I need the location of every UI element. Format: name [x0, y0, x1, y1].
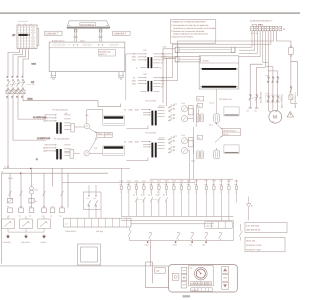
svg-text:A2: A2	[29, 214, 31, 217]
svg-text:K1: K1	[87, 197, 89, 200]
panel mid icon	[223, 277, 227, 279]
selector TR3 dashed link	[170, 104, 172, 121]
svg-text:TIR 3: TIR 3	[191, 159, 195, 162]
bus line L3	[2, 172, 109, 174]
wire heater left drop 2	[166, 58, 168, 106]
svg-text:m4: m4	[198, 104, 200, 107]
selector contacts TR3 upper circle b	[169, 110, 170, 111]
panel left strip icon 2	[182, 276, 185, 279]
svg-text:230V: 230V	[129, 140, 134, 143]
pressure switch blade	[290, 87, 293, 92]
drop contact blade x10	[9, 191, 12, 196]
selector contacts TR4 lower blade b	[169, 150, 172, 152]
transformer TR1 secondary stubs	[153, 54, 160, 63]
panel up button	[222, 267, 229, 274]
wire X1 pin6 down to motor L2	[266, 31, 273, 77]
arrow from T1 to table	[89, 128, 97, 133]
heater bar RS1 inner line	[179, 49, 231, 51]
selector contacts TR4 upper blade b	[169, 141, 172, 143]
cam switch S1 actuator dark bar	[18, 34, 27, 36]
disconnect switch Q2 pole A contact	[250, 94, 251, 95]
panel display segments	[194, 288, 208, 292]
machine rod left bearing	[74, 29, 77, 32]
svg-text:A2: A2	[60, 214, 62, 217]
svg-text:N1: N1	[247, 110, 249, 113]
transformer TR1 primary arrowheads	[145, 53, 147, 60]
transformer TR1 primary stubs	[138, 54, 147, 60]
mini table tag 1	[197, 103, 202, 107]
machine leg right	[119, 72, 123, 76]
timer contact T2 inner mark	[85, 152, 88, 155]
wire TR1 secondary riser 1	[161, 44, 173, 54]
wire bundle bottom link	[145, 286, 168, 288]
transformer TR4 core bar 2	[155, 143, 157, 158]
selector contacts TR3 upper circle a	[169, 107, 170, 108]
cam switch S1 column dividers	[20, 25, 33, 49]
wire breaker to feeder 3	[13, 95, 46, 141]
K1 aux switch vertical	[88, 185, 90, 218]
svg-text:A1: A1	[7, 205, 9, 208]
wire shunt to T1	[78, 126, 84, 128]
wire RV3 to riser	[188, 141, 194, 154]
gray mark under panel	[183, 295, 191, 297]
coil row K4	[42, 208, 47, 213]
selector contacts TR3 upper blade b	[169, 109, 172, 111]
drop contact blade x62	[61, 191, 64, 196]
svg-text:T-VACIO/SELL: T-VACIO/SELL	[65, 230, 77, 233]
breaker Q1 designator line	[27, 84, 35, 86]
svg-text:6TL: 6TL	[190, 243, 193, 246]
svg-text:400V: 400V	[135, 140, 140, 143]
control panel outline	[169, 265, 238, 292]
wire S1 to breaker N	[23, 49, 29, 78]
svg-text:1 3 5: 1 3 5	[265, 74, 269, 77]
svg-text:C2: C2	[259, 97, 261, 100]
transformer TR2 bottom taps	[140, 90, 159, 92]
cut wire rect R-bot bottom bar	[225, 152, 239, 154]
welding bar B1 black bar	[104, 116, 123, 118]
shunt resistor RS2 wires	[64, 151, 79, 155]
svg-text:KA1: KA1	[35, 189, 38, 192]
svg-text:CAMARA T: CAMARA T	[114, 33, 127, 36]
svg-text:L1 48: L1 48	[4, 166, 10, 169]
wire drop k3	[31, 168, 33, 186]
wire TR2 secondary riser 1	[161, 77, 173, 79]
machine body outline	[49, 42, 125, 71]
junction tag box before panel	[155, 268, 166, 274]
terminal strip X1 body	[251, 26, 282, 30]
svg-text:A1: A1	[52, 205, 54, 208]
thermal relay F1 contact U	[268, 96, 269, 97]
rail blade contact x178	[177, 233, 181, 241]
selector contacts TR4 upper terminal dots	[173, 137, 174, 138]
cylinder pair C-top hatch	[198, 115, 202, 121]
svg-text:2 4 6: 2 4 6	[265, 92, 269, 95]
wire bus L2 to connector row	[120, 168, 122, 182]
K1 aux contact dots	[88, 195, 89, 196]
wire bundle left line 2	[152, 262, 154, 283]
panel button B1	[172, 274, 179, 281]
rail blade terminal x206	[205, 232, 208, 234]
cylinder D-top bottom dot	[216, 123, 217, 124]
machine lid rim line	[68, 25, 110, 27]
transformer TR2 secondary stubs	[153, 78, 160, 87]
warning triangle mark	[289, 113, 291, 115]
label box CAMARA T right	[113, 31, 131, 35]
relay valve RV1 circle	[182, 106, 188, 112]
inspection window outer square	[78, 244, 101, 265]
svg-text:EV1: EV1	[182, 102, 185, 105]
wire TR2 riser vertical 1	[171, 54, 173, 78]
selector contacts TR3 lower blade a	[169, 115, 172, 117]
welding bar B2 outline	[103, 146, 124, 155]
relay box RB2	[188, 138, 193, 147]
svg-text:A2: A2	[50, 214, 52, 217]
wire T1 up to welding bar	[87, 110, 103, 124]
svg-text:B=400 R 11 kW: B=400 R 11 kW	[246, 244, 262, 247]
welding bar B1 bottom line	[104, 123, 123, 125]
K contact pair 2 link	[151, 200, 159, 216]
selector contacts TR3 lower terminal dots	[173, 114, 174, 115]
wire bundle top cap	[145, 261, 152, 263]
wire S1 to breaker L3	[18, 49, 26, 78]
plate heater box bottom black bar	[202, 86, 236, 88]
sensor row label 1 dot	[147, 241, 148, 242]
svg-text:segun el dibujo (en la caja de: segun el dibujo (en la caja de bornes).	[173, 33, 209, 36]
transformer TRS2 primary arrowheads	[55, 144, 57, 151]
svg-text:CIA. 655 655: CIA. 655 655	[246, 224, 260, 227]
relay valve RV3 circle	[182, 138, 188, 144]
transformer TR3 core bar 1	[151, 111, 153, 126]
svg-text:230V: 230V	[132, 79, 137, 82]
relay block drop wire	[100, 210, 102, 218]
svg-text:BOMBA VAC: BOMBA VAC	[99, 50, 111, 53]
wire TR4 bottom tap down	[126, 157, 148, 160]
transformer TRS2 secondary stubs	[64, 145, 71, 153]
rail blade contact x192	[191, 233, 195, 241]
reference box 2 frame	[245, 237, 285, 251]
wire top border line	[0, 12, 300, 14]
thermostat strip dividers	[71, 218, 127, 227]
machine band tick marks	[55, 43, 116, 46]
selector contacts TR4 lower circle b	[169, 152, 170, 153]
selector contacts TR3 lower circle b	[169, 120, 170, 121]
pushbutton SB2 stub	[25, 216, 27, 219]
wire T2 to welding bar	[89, 152, 103, 154]
wire S1 to breaker L2	[13, 49, 23, 78]
rail blade contact x206	[205, 233, 209, 241]
cut wire rect R-top	[224, 107, 239, 116]
machine rod right	[100, 28, 102, 42]
wire X1 pin8 down left branch	[270, 31, 272, 44]
svg-text:8.8.8.8: 8.8.8.8	[192, 289, 199, 292]
cam switch S1 contact grid circles	[18, 27, 35, 48]
svg-text:L2 230V 2.1A: L2 230V 2.1A	[37, 137, 51, 140]
svg-text:K2: K2	[141, 193, 143, 196]
rail blade contact x150	[149, 233, 153, 241]
transformer TRS1 primary stubs	[49, 115, 57, 121]
wire TR1 primary feed drop	[126, 54, 138, 100]
pushbutton SB3 lever	[40, 221, 48, 226]
connector row fuse terminals	[120, 186, 237, 189]
svg-text:A1: A1	[20, 205, 22, 208]
machine rod left collar	[74, 36, 78, 37]
cylinder pair C-bot	[196, 151, 199, 159]
machine foot left	[50, 76, 56, 78]
svg-text:400V: 400V	[132, 59, 137, 62]
indicator arrow 1	[7, 234, 10, 238]
wire S1 to breaker L1	[8, 49, 20, 78]
machine rod gland left arrows	[73, 44, 79, 46]
svg-text:K1: K1	[133, 193, 135, 196]
svg-text:A M4: A M4	[173, 243, 177, 246]
panel button B1 dot	[174, 275, 177, 278]
transformer TRS2 core bar 2	[60, 149, 62, 159]
machine lid label plate	[80, 23, 96, 26]
breaker Q1 trip boxes	[6, 90, 10, 94]
arrow head tag top	[221, 128, 223, 130]
drop contact blade x21	[20, 191, 23, 196]
disconnect switch Q2 pole B contact	[256, 94, 257, 95]
svg-text:A2: A2	[42, 214, 44, 217]
svg-text:A1: A1	[43, 205, 45, 208]
resistencia tag box	[223, 129, 241, 136]
right frame drop	[232, 220, 234, 240]
plate heater box outline	[199, 56, 239, 89]
timer contact T2 circle	[84, 151, 89, 156]
K contact pair 1 blade	[135, 197, 145, 202]
svg-text:MAQ: MAQ	[28, 98, 33, 101]
cylinder single D-bot	[214, 150, 220, 159]
connector row top rail	[62, 182, 196, 184]
bottom rail under contacts	[130, 240, 234, 242]
svg-text:0 M2: 0 M2	[145, 243, 149, 246]
wire riser TR3 down	[189, 154, 191, 179]
rail blade terminal x192	[191, 232, 194, 234]
transformer TR4 secondary stubs	[158, 140, 165, 149]
panel gauge inner circle	[196, 269, 205, 278]
wire branch to left circuit	[172, 44, 271, 54]
wire TR1 secondary riser 2	[161, 44, 178, 57]
machine body top band line	[49, 47, 125, 49]
wire RV2 to riser	[188, 118, 194, 120]
relay valve RV2 cross	[183, 117, 187, 121]
lower bus rail 1	[121, 215, 233, 217]
svg-text:K5: K5	[163, 193, 165, 196]
panel gauge frame box	[189, 266, 214, 286]
svg-text:TR2: TR2	[143, 73, 147, 76]
wire breaker to feeder 2	[18, 95, 46, 120]
machine caster right	[120, 77, 122, 79]
heater bar RS1 end cap right	[231, 47, 235, 52]
panel down icon	[223, 284, 227, 287]
pushbutton SB1 box	[2, 219, 15, 229]
pressure aux wire	[248, 197, 250, 221]
heater bar RS2 end cap	[175, 57, 179, 62]
svg-text:K2: K2	[94, 197, 96, 200]
thermal relay F1 contact W	[277, 96, 278, 97]
coil row K3	[29, 208, 34, 213]
bottom diag wire 1	[129, 228, 131, 241]
selector contacts TR3 lower blade b	[169, 118, 172, 120]
thermostat strip box body	[64, 218, 132, 227]
wire TR2 riser vertical 2	[176, 57, 178, 81]
disconnect switch Q2 linkage	[249, 97, 259, 99]
connector row labels line2	[119, 183, 237, 186]
selector TR4 dashed link	[170, 136, 172, 153]
svg-text:CORTE: CORTE	[105, 132, 112, 135]
svg-text:CAMARA T: CAMARA T	[46, 33, 59, 36]
svg-text:SOLD: SOLD	[98, 132, 103, 135]
cylinder pair C-bot hatch	[198, 152, 202, 158]
svg-text:SOLD: SOLD	[223, 133, 229, 136]
svg-text:1P: 1P	[12, 34, 15, 37]
connector row labels line1	[119, 179, 238, 182]
wire breaker to feeder 1	[23, 95, 121, 107]
svg-text:ALIMENTACION 400V 3~: ALIMENTACION 400V 3~	[250, 20, 274, 23]
wire aux lines right edge 2	[297, 62, 299, 97]
svg-text:3-Ajustar el rele termico.: 3-Ajustar el rele termico.	[171, 36, 194, 39]
coil row K2	[19, 208, 24, 213]
motor M1 circle	[269, 110, 282, 123]
wire stub above cam switch	[18, 20, 28, 22]
panel left strip button 3	[181, 282, 187, 288]
shunt resistor RS box	[71, 123, 74, 132]
transformer TR3 secondary stubs	[158, 108, 165, 117]
pushbutton SB3 stub	[43, 216, 45, 219]
wire Q2 terminal bars	[249, 107, 259, 109]
K2 aux switch blade	[95, 200, 98, 206]
buzzer H1 circle top	[30, 186, 34, 190]
terminal strip X1 jumper 2	[258, 24, 262, 26]
svg-text:P1: P1	[251, 205, 253, 208]
small junction box right of TR3	[197, 96, 204, 101]
connector row bottom wires	[121, 189, 236, 220]
svg-text:ELECTROVALV. 8: ELECTROVALV. 8	[294, 93, 297, 108]
breaker Q1 trip box crosses	[6, 90, 25, 94]
relay valve RV2 circle	[182, 116, 188, 122]
svg-text:m4: m4	[198, 136, 200, 139]
svg-text:C1: C1	[175, 102, 177, 105]
machine rod left	[75, 28, 77, 42]
panel small key row	[191, 282, 212, 285]
machine rod gland right arrows	[98, 44, 104, 46]
wire X1 pin3 down to heater feed	[239, 31, 258, 54]
coil row K6	[60, 208, 65, 213]
wire motor phase V vertical	[272, 77, 274, 111]
heater bar RS1 end cap left	[175, 47, 179, 52]
machine rod right collar	[99, 36, 103, 37]
relay valve RV1 cross	[183, 107, 187, 111]
wire X1 pin2 down to heater feed	[239, 31, 255, 50]
drop contact blade x44	[43, 191, 46, 196]
selector contacts TR4 upper blade a	[169, 137, 172, 139]
wire RV1 to riser	[188, 109, 194, 122]
plate heater bottom bar end dots	[201, 86, 202, 87]
svg-text:2AV SW: 2AV SW	[206, 225, 213, 228]
selector table box	[97, 132, 112, 137]
rail blade terminal x150	[149, 232, 152, 234]
svg-text:A1: A1	[35, 200, 37, 203]
wire motor entry ticks	[268, 110, 277, 112]
aux contact C1 diagonal	[7, 198, 12, 203]
coil row K5	[50, 208, 55, 213]
terminal strip X1 screw dots	[252, 27, 281, 30]
K contact pair 1 dashes	[137, 199, 144, 201]
contactor KM1 blades	[267, 78, 279, 83]
wire aux top	[290, 41, 292, 46]
solenoid coil EV box	[289, 95, 293, 100]
aux device right fuse bottom circle	[290, 55, 291, 56]
bus L2 junction dot	[30, 168, 31, 169]
wire drop k7	[67, 173, 69, 207]
pushbutton SB1 lever	[4, 221, 12, 226]
panel digital display strip	[191, 288, 212, 292]
transformer TR3 primary arrowheads	[149, 109, 151, 116]
svg-text:mb: mb	[190, 266, 193, 269]
wire drop k2	[20, 173, 22, 207]
svg-text:TIR INOX 7x5: TIR INOX 7x5	[219, 98, 232, 101]
lower bus rail 3	[131, 223, 214, 225]
welding bar B2 black bar	[104, 146, 123, 148]
rail blade terminal x220	[219, 232, 222, 234]
relay block K1K2 box	[84, 192, 102, 210]
connector row drop wires	[121, 179, 236, 186]
sensor row label 4 dot	[205, 241, 206, 242]
transformer TR4 primary arrowheads	[149, 141, 151, 148]
cam selector switch S1 outline	[17, 25, 37, 49]
wire X1 pin4 down to box feed	[239, 31, 260, 57]
svg-text:B=230 R 1 kW: B=230 R 1 kW	[246, 248, 261, 251]
svg-text:M2 I: M2 I	[203, 243, 207, 246]
wire drop k6	[61, 168, 63, 207]
arrow to tag from top	[215, 123, 222, 130]
terminal strip X1 jumper 1	[252, 24, 256, 26]
rail blade terminal x178	[177, 232, 180, 234]
svg-text:SPB2 SEG: SPB2 SEG	[21, 241, 30, 244]
welding bar B1 outline	[103, 116, 124, 125]
wire buzzer down	[31, 194, 33, 208]
wire heater stub 2	[163, 57, 175, 59]
svg-text:conexiones y conectar el puent: conexiones y conectar el puente suminist…	[173, 27, 216, 30]
panel gauge hub dot	[200, 273, 201, 274]
selector contacts TR3 upper terminal dots	[173, 105, 174, 106]
transformer TRS2 primary stubs	[49, 145, 57, 151]
aux device right fuse body	[289, 48, 294, 55]
wire Q2 pole B feed	[257, 67, 266, 70]
wire RV4 to riser	[188, 151, 190, 154]
thermal relay F1 contact V	[272, 96, 273, 97]
cylinder single D-top	[214, 114, 220, 123]
connector row labels line3	[120, 190, 236, 193]
wire heater left drop	[162, 49, 164, 103]
inspection window inner square	[81, 247, 98, 262]
wire TR2 secondary riser 2	[161, 80, 178, 82]
breaker Q1 upper contacts	[7, 80, 9, 82]
timer contact T1 inner mark	[86, 125, 89, 128]
wire solenoid bottom stub	[291, 100, 298, 104]
wire aux feed from strip	[276, 31, 291, 41]
machine interior label box	[98, 50, 115, 56]
wire motor phase W vertical	[277, 77, 279, 111]
wire drop k1	[9, 173, 11, 198]
transformer TRS1 core bar 1	[56, 122, 58, 133]
pushbutton SB2 box	[20, 219, 33, 229]
pressure aux component right	[247, 204, 251, 208]
bottom diag wire 5	[240, 224, 242, 241]
wire aux lines right edge 1	[291, 56, 298, 61]
note box frame	[170, 20, 216, 44]
